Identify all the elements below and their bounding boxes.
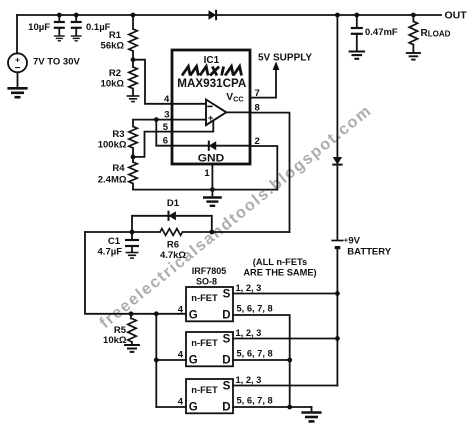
svg-text:R4: R4 <box>112 163 125 174</box>
svg-text:10kΩ: 10kΩ <box>101 79 125 90</box>
wire Q1 D to drain bus <box>233 315 290 407</box>
svg-text:0.1µF: 0.1µF <box>86 22 111 33</box>
wire R3 top to pin 3 <box>133 120 171 127</box>
wire R1 to R2 <box>132 51 134 67</box>
svg-text:10µF: 10µF <box>28 22 50 33</box>
diode D1 <box>169 211 176 221</box>
op-amp IC1 MAX931CPA box <box>172 50 250 164</box>
svg-text:R6: R6 <box>167 240 179 251</box>
svg-text:S: S <box>223 381 231 393</box>
wire pin 8 to R6-D1 node <box>251 113 290 232</box>
ground below R5 <box>124 345 140 352</box>
wire R2 to ground <box>132 89 134 95</box>
svg-text:n-FET: n-FET <box>191 337 218 348</box>
wire ground net horizontal <box>133 189 277 191</box>
svg-text:D: D <box>222 401 230 413</box>
wire Q3 S to battery rail <box>233 385 337 387</box>
wire gate node left segment <box>85 231 160 233</box>
junction dot pin3 node <box>154 117 159 122</box>
transistor n-FET Q1 box <box>186 287 233 321</box>
junction dot top rail / C-10uF <box>57 13 62 18</box>
junction dot top rail battery branch <box>335 13 340 18</box>
junction dot R3-R4 node <box>131 155 136 160</box>
wire R4 to ground line <box>132 184 134 190</box>
svg-text:1, 2, 3: 1, 2, 3 <box>236 328 262 338</box>
resistor R4 <box>129 162 137 184</box>
svg-text:5: 5 <box>163 122 169 133</box>
wire IC pin 1 stub <box>211 165 213 190</box>
svg-text:D1: D1 <box>167 198 180 209</box>
svg-text:5, 6, 7, 8: 5, 6, 7, 8 <box>237 304 273 314</box>
svg-text:MAX931CPA: MAX931CPA <box>177 78 246 90</box>
svg-text:R1: R1 <box>109 30 122 41</box>
wire gate bus to Q2 G <box>156 359 186 361</box>
svg-text:(ALL n-FETs: (ALL n-FETs <box>253 257 307 267</box>
svg-text:6: 6 <box>163 136 168 147</box>
svg-text:ARE THE SAME): ARE THE SAME) <box>243 268 316 278</box>
transistor n-FET Q2 box <box>186 332 233 366</box>
svg-text:BATTERY: BATTERY <box>347 247 391 258</box>
svg-text:0.47mF: 0.47mF <box>365 27 398 38</box>
svg-text:S: S <box>223 289 231 301</box>
wire R3-R4 node to pin 5 <box>133 132 171 157</box>
svg-text:n-FET: n-FET <box>191 292 218 303</box>
wire R3 to R4 <box>132 148 134 162</box>
resistor R6 <box>160 229 183 236</box>
wire pin3 internal to comparator + <box>171 119 206 121</box>
junction dot pin1 ground <box>210 187 215 192</box>
junction dot R5 top <box>129 311 134 316</box>
wire 0.1uF to ground <box>75 28 77 35</box>
junction dot top rail / C-0.1uF <box>74 13 79 18</box>
svg-text:G: G <box>189 309 198 321</box>
MAXIM logo <box>182 67 242 76</box>
svg-text:2.4MΩ: 2.4MΩ <box>98 175 127 186</box>
ground below 10uF <box>54 36 65 41</box>
svg-text:10kΩ: 10kΩ <box>103 335 127 346</box>
wire source - to ground <box>17 72 19 87</box>
wire RLOAD to ground <box>412 45 414 52</box>
wire from top rail to source + <box>16 15 18 54</box>
wire drain bus to ground <box>290 406 312 408</box>
junction dot top rail C-0.47mF <box>354 13 359 18</box>
ground below 0.47mF <box>349 52 366 59</box>
svg-text:56kΩ: 56kΩ <box>101 41 125 52</box>
svg-text:D: D <box>222 309 230 321</box>
svg-text:4: 4 <box>164 94 170 105</box>
voltage source V1 7V-30V <box>8 53 27 74</box>
capacitor 10uF <box>54 22 65 28</box>
junction dot drain bus Q2 <box>287 358 292 363</box>
svg-text:5V SUPPLY: 5V SUPPLY <box>258 53 312 64</box>
wire diode to battery + <box>336 167 338 240</box>
junction dot gate bus top <box>154 311 159 316</box>
svg-text:3: 3 <box>164 110 169 121</box>
svg-text:1: 1 <box>204 168 210 179</box>
wire top rail right of diode <box>217 14 441 16</box>
junction dot drain bus Q3 <box>287 405 292 410</box>
wire C1 to ground <box>131 246 133 252</box>
junction dot rail Q1 S <box>335 291 340 296</box>
wire D1 branch <box>132 216 212 232</box>
wire top rail to 0.47mF <box>356 15 358 28</box>
ground below source <box>7 88 27 97</box>
ground below C1 <box>126 253 139 259</box>
diode D2 on battery rail <box>332 157 342 165</box>
svg-text:n-FET: n-FET <box>191 384 218 395</box>
wire 10uF to ground <box>58 28 60 35</box>
wire top rail to diode D2 <box>336 15 338 157</box>
arrow 5V supply <box>273 62 280 71</box>
junction dot top rail / R1 <box>131 13 136 18</box>
svg-text:4.7kΩ: 4.7kΩ <box>160 250 186 261</box>
wire Q3 D segment <box>233 406 290 408</box>
junction dot gate bus Q2 <box>154 358 159 363</box>
diode inside IC1 <box>209 141 216 151</box>
resistor R5 <box>128 319 136 343</box>
wire gate bus vertical <box>155 314 157 407</box>
wire gate rail to FET1 G <box>85 232 186 314</box>
svg-text:4: 4 <box>178 397 184 408</box>
svg-text:4: 4 <box>178 305 184 316</box>
wire top rail to R1 <box>132 15 134 29</box>
battery B1 9V <box>331 241 343 248</box>
capacitor C1 <box>125 240 139 246</box>
ground below 0.1uF <box>71 36 82 41</box>
wire to ground symbol <box>211 190 213 197</box>
svg-text:SO-8: SO-8 <box>196 277 217 287</box>
junction dot R1-R2 node <box>131 57 136 62</box>
wire R1-R2 node to pin 4 <box>133 60 171 104</box>
svg-text:7V TO 30V: 7V TO 30V <box>33 57 80 68</box>
svg-text:R3: R3 <box>112 129 124 140</box>
wire comparator output to pin 8 <box>226 111 251 113</box>
svg-text:VCC: VCC <box>226 92 243 104</box>
svg-text:RLOAD: RLOAD <box>421 28 451 39</box>
wire stub to ground FETs <box>311 407 313 412</box>
svg-text:2: 2 <box>255 136 260 147</box>
svg-text:1, 2, 3: 1, 2, 3 <box>236 283 262 293</box>
svg-text:4: 4 <box>178 350 184 361</box>
wire top rail to 10uF <box>58 15 60 22</box>
wire gate bus to Q3 G <box>156 406 186 408</box>
svg-text:G: G <box>189 401 198 413</box>
wire Q1 S to battery rail <box>233 293 337 295</box>
wire gate node to R5 <box>130 314 132 319</box>
wire 0.47mF to ground <box>356 34 358 51</box>
ground below RLOAD <box>406 53 421 60</box>
junction dot D1-R6-pin8 node <box>209 230 214 235</box>
svg-text:D: D <box>222 354 230 366</box>
wire top rail left of diode <box>17 14 209 16</box>
svg-text:C1: C1 <box>108 236 121 247</box>
svg-text:1, 2, 3: 1, 2, 3 <box>236 375 262 385</box>
svg-text:IRF7805: IRF7805 <box>192 266 227 276</box>
capacitor 0.47mF <box>351 28 363 34</box>
resistor R1 <box>129 29 137 51</box>
diode D-top on top rail <box>209 10 217 20</box>
wire battery - to FET sources <box>336 249 338 386</box>
junction dot top rail RLOAD <box>411 13 416 18</box>
transistor n-FET Q3 box <box>186 379 233 413</box>
svg-text:5, 6, 7, 8: 5, 6, 7, 8 <box>237 396 273 406</box>
svg-text:S: S <box>223 334 231 346</box>
wire ground net to pin 2 <box>252 146 277 190</box>
svg-text:GND: GND <box>198 152 225 164</box>
resistor RLOAD <box>409 21 417 44</box>
wire R5 to ground <box>131 342 133 344</box>
wire Q2 D to drain bus <box>233 359 290 361</box>
svg-text:OUT: OUT <box>445 10 468 22</box>
svg-text:9V: 9V <box>348 236 360 247</box>
comparator inside IC1 <box>206 100 226 126</box>
wire pin4 internal to comparator - <box>171 103 206 105</box>
ground below IC pin 1 <box>203 198 222 206</box>
svg-text:100kΩ: 100kΩ <box>98 140 127 151</box>
wire node to C1 <box>131 232 133 239</box>
ground below FET drains <box>301 413 321 422</box>
wire pin6 internal to pin 2 via diode <box>171 145 251 147</box>
wire pin3 node to pin 6 <box>156 120 171 146</box>
resistor R3 <box>129 127 137 149</box>
svg-text:G: G <box>189 354 198 366</box>
ground below R2 <box>127 96 140 102</box>
capacitor 0.1uF <box>71 22 82 28</box>
wire R6 right segment <box>183 231 290 233</box>
junction dot C1-D1 node <box>130 230 135 235</box>
resistor R2 <box>129 67 137 89</box>
wire top rail to 0.1uF <box>75 15 77 22</box>
wire Q2 S to battery rail <box>233 338 337 340</box>
svg-text:4.7µF: 4.7µF <box>98 247 123 258</box>
svg-text:5, 6, 7, 8: 5, 6, 7, 8 <box>237 349 273 359</box>
wire top rail to RLOAD <box>412 15 414 21</box>
wire pin 7 to 5V supply <box>251 67 276 98</box>
svg-text:R2: R2 <box>109 68 121 79</box>
wire pin5 internal to comparator <box>171 121 213 132</box>
comparator - input mark <box>207 105 212 107</box>
junction dot rail Q2 S <box>335 336 340 341</box>
